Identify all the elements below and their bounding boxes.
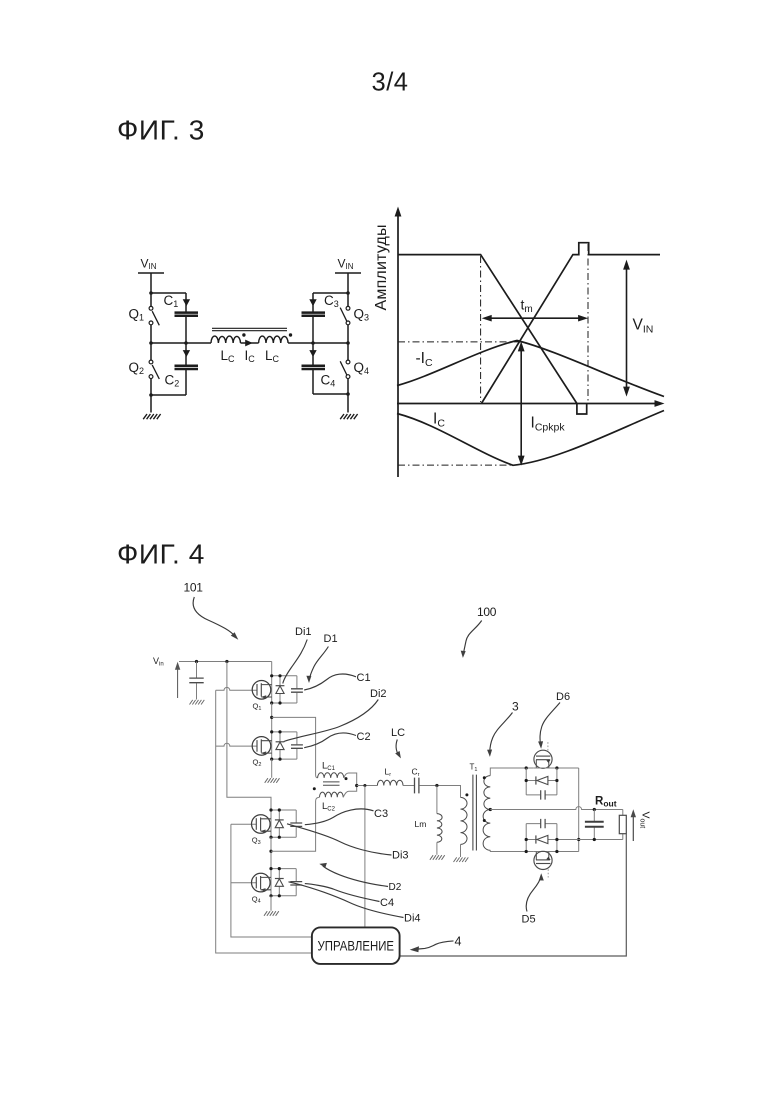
arrow current into C1	[183, 299, 190, 306]
svg-text:Vin: Vin	[153, 656, 164, 668]
label Lm	[415, 819, 427, 829]
svg-text:VIN: VIN	[633, 317, 654, 336]
wire top rectifier rail	[534, 767, 579, 769]
label LC	[391, 727, 405, 739]
label 4	[455, 935, 462, 949]
leader 100	[463, 621, 481, 655]
diode lower clamp	[526, 839, 579, 841]
node junction dots right rail	[311, 291, 350, 396]
svg-text:Q4: Q4	[354, 360, 370, 376]
wire Lc2 right lead	[343, 786, 357, 798]
gate dotted D6	[547, 742, 549, 751]
waveform top flat and falling edge with bottom notch	[398, 255, 587, 414]
label Q3	[354, 307, 370, 323]
ground primary	[454, 857, 469, 862]
label Q4	[252, 894, 261, 904]
label Cr	[412, 767, 420, 779]
arrow tm	[482, 315, 588, 322]
label D5	[522, 914, 536, 926]
leader D6	[540, 703, 560, 746]
label C2	[357, 731, 371, 743]
switch Q1	[149, 306, 159, 325]
polarity dot Lc2	[313, 787, 316, 790]
label Vin	[153, 656, 164, 668]
label Lc1	[322, 761, 336, 773]
node output bottom dot	[593, 838, 596, 841]
svg-text:Q1: Q1	[129, 307, 145, 323]
wire gate Q2 with hop	[216, 743, 257, 746]
svg-text:IC: IC	[245, 348, 256, 364]
svg-text:101: 101	[184, 581, 204, 595]
label Q1	[129, 307, 145, 323]
wire bus C gate drive lower	[231, 824, 312, 937]
label Lr	[385, 767, 392, 779]
svg-text:C3: C3	[324, 293, 339, 309]
svg-text:Cr: Cr	[412, 767, 420, 779]
leader Di4	[289, 882, 404, 918]
inductor Lm	[437, 814, 442, 843]
curve -Ic	[397, 341, 664, 397]
leader LC	[396, 740, 399, 756]
label Rout	[595, 796, 617, 809]
node dots D6	[525, 766, 559, 769]
svg-text:4: 4	[455, 935, 462, 949]
transformer T1 secondary winding upper	[484, 776, 490, 810]
transistor Q2 cell	[252, 730, 303, 760]
arrow VIN level	[623, 260, 630, 397]
node Lm tap	[435, 784, 438, 787]
wire Q3 to Q4	[270, 837, 272, 868]
polarity dot left winding	[242, 333, 245, 336]
wire Lm top	[436, 786, 438, 814]
dash-dot horizontal guide upper	[398, 341, 521, 343]
wire top rail	[179, 661, 272, 663]
arrow current into C4	[309, 350, 316, 357]
svg-text:Di1: Di1	[295, 626, 312, 638]
svg-text:100: 100	[477, 605, 497, 619]
capacitor C3	[302, 313, 326, 316]
wire C3 bottom	[312, 317, 314, 343]
switch Q2	[149, 360, 159, 379]
wire C1 branch top	[151, 293, 186, 312]
label Di4	[404, 913, 421, 925]
wire C2 branch	[151, 343, 186, 395]
switch Q4	[340, 360, 350, 378]
wire Q1 to Q2	[271, 703, 273, 732]
resistor Rout	[622, 810, 624, 840]
wire bus B Vin to lower bridge	[227, 662, 271, 811]
wire secondary bottom lead	[490, 850, 534, 851]
wire gate Q3	[231, 823, 257, 825]
label C4	[380, 897, 394, 909]
svg-text:D5: D5	[522, 914, 536, 926]
wire Lr to Cr	[403, 785, 414, 787]
arrow current into C2	[183, 350, 190, 357]
wire Q2 to ground	[271, 759, 273, 778]
inductor Lc1 winding	[318, 773, 344, 778]
svg-text:ФИГ. 4: ФИГ. 4	[117, 539, 205, 570]
svg-text:C1: C1	[164, 293, 179, 309]
svg-text:Di2: Di2	[370, 688, 387, 700]
label C3	[374, 808, 388, 820]
leader C3	[305, 809, 374, 825]
leader C4	[305, 884, 380, 902]
svg-text:C1: C1	[357, 672, 371, 684]
ground Lm	[430, 855, 445, 860]
leader D2 with arrow	[323, 866, 388, 887]
leader D5	[526, 877, 541, 912]
capacitor C2	[175, 366, 199, 369]
svg-text:Rout: Rout	[595, 796, 617, 809]
transistor Q4 cell	[252, 867, 303, 897]
svg-text:Амплитуды: Амплитуды	[373, 224, 390, 310]
wire between windings	[241, 342, 259, 344]
svg-text:УПРАВЛЕНИЕ: УПРАВЛЕНИЕ	[318, 939, 395, 954]
inductor Lr	[377, 780, 403, 785]
leader 101	[193, 597, 235, 637]
gate dotted D5	[547, 869, 549, 877]
node dots D5	[525, 850, 559, 853]
label Vout rotated	[639, 812, 652, 829]
svg-text:Q2: Q2	[129, 360, 145, 376]
label Di3	[392, 850, 409, 862]
svg-text:D6: D6	[556, 691, 570, 703]
transformer T1 secondary winding lower	[483, 810, 490, 851]
label C3	[324, 293, 339, 309]
wire output bottom rail	[579, 839, 623, 841]
wire center tap with hop over output rail	[490, 807, 623, 810]
clamp box upper: verticals	[526, 768, 557, 795]
wire C4 branch	[313, 343, 348, 394]
label Lc right	[265, 348, 280, 364]
capacitor Cr	[415, 778, 419, 794]
svg-text:VIN: VIN	[141, 257, 157, 272]
node VIN left label	[141, 257, 157, 272]
node midpoint lower bridge	[269, 850, 272, 853]
x-axis	[397, 403, 656, 405]
label Амплитуды	[373, 224, 390, 310]
core T1	[473, 775, 477, 851]
wire sense line to control	[364, 786, 366, 928]
leader Di2	[284, 700, 379, 742]
node center tap	[489, 808, 492, 811]
transistor Q1 cell	[252, 674, 303, 704]
leader C2	[304, 733, 356, 748]
svg-text:IC: IC	[433, 411, 445, 430]
svg-text:3/4: 3/4	[372, 69, 409, 97]
capacitor upper clamp	[526, 794, 557, 796]
wire secondary top lead	[490, 768, 534, 776]
ground Q2	[265, 778, 280, 783]
label -Ic	[416, 350, 433, 369]
waveform rising edge with top pulse	[481, 243, 660, 404]
arrow Ic	[245, 340, 253, 347]
label 3	[512, 700, 519, 714]
label T1	[470, 763, 478, 773]
svg-text:C4: C4	[380, 897, 394, 909]
ground input cap	[190, 700, 205, 705]
svg-text:D1: D1	[324, 633, 338, 645]
svg-text:Lr: Lr	[385, 767, 392, 779]
label 101	[184, 581, 204, 595]
svg-text:ICpkpk: ICpkpk	[531, 415, 566, 434]
node junction dots left rail	[149, 291, 153, 397]
capacitor lower clamp	[526, 823, 557, 825]
control box УПРАВЛЕНИЕ	[312, 927, 400, 964]
transformer core lines coupled inductor	[212, 328, 287, 330]
curve Ic	[397, 411, 664, 466]
wire Cr to T1	[419, 786, 460, 798]
wire Lc2 left lead	[316, 797, 320, 801]
transformer T1 primary winding	[461, 797, 468, 844]
diode upper clamp	[526, 780, 557, 782]
wire Q4 to ground	[270, 896, 272, 911]
ground left	[143, 414, 160, 419]
label Ic	[245, 348, 256, 364]
label Q1	[253, 702, 262, 712]
svg-text:Q1: Q1	[253, 702, 262, 712]
capacitor input	[196, 662, 198, 700]
wire VIN left bar	[138, 272, 164, 274]
svg-text:Q2: Q2	[253, 758, 262, 768]
svg-text:LC2: LC2	[322, 801, 336, 813]
rectifier MOSFET D5	[534, 851, 552, 869]
leader Di1	[283, 640, 307, 684]
node midpoint upper bridge	[270, 716, 273, 719]
wire midpoint tap to Lc1	[272, 717, 318, 778]
svg-text:Vout: Vout	[639, 812, 652, 829]
label 100	[477, 605, 497, 619]
label C4	[321, 373, 336, 389]
wire middle left	[151, 342, 211, 344]
svg-text:C4: C4	[321, 373, 336, 389]
clamp box lower: verticals	[526, 824, 557, 852]
label Di1	[295, 626, 312, 638]
node LC junction	[355, 784, 358, 787]
label Q3	[252, 836, 261, 846]
label C1	[164, 293, 179, 309]
svg-text:Lm: Lm	[415, 819, 427, 829]
svg-text:Q4: Q4	[252, 894, 261, 904]
ground Q4	[264, 911, 279, 916]
y-axis Амплитуды	[397, 215, 399, 477]
label ICpkpk	[531, 415, 566, 434]
label VIN	[633, 317, 654, 336]
dash-dot vertical guide left	[480, 256, 482, 402]
svg-text:C2: C2	[357, 731, 371, 743]
leader C1	[304, 674, 356, 690]
arrow Vout	[631, 809, 636, 841]
wire feedback to control	[400, 834, 627, 956]
svg-text:C2: C2	[165, 373, 180, 389]
inductor Lc left winding	[211, 336, 241, 343]
wire output plus rail vertical	[578, 768, 580, 852]
wire C1 bottom	[185, 317, 187, 343]
core lines Lc transformer	[323, 782, 340, 785]
label Q4	[354, 360, 370, 376]
inductor Lc right winding	[259, 336, 289, 343]
label Ic	[433, 411, 445, 430]
label C2	[165, 373, 180, 389]
svg-text:Q3: Q3	[252, 836, 261, 846]
wire gate Q4	[231, 882, 257, 884]
svg-text:3: 3	[512, 700, 519, 714]
leader Di3	[287, 824, 392, 855]
svg-text:D2: D2	[389, 882, 402, 893]
svg-text:LC: LC	[391, 727, 405, 739]
inductor Lc2 winding	[320, 792, 344, 797]
ground right	[340, 414, 357, 419]
leader 4 with arrow	[419, 941, 454, 949]
label Di2	[370, 688, 387, 700]
dash-dot horizontal guide lower	[398, 464, 512, 466]
label Q2	[129, 360, 145, 376]
dash-dot vertical guide right	[587, 244, 589, 402]
arrow current into C3	[309, 299, 316, 306]
wire right rail	[347, 273, 349, 413]
arrow ICpkpk	[518, 341, 525, 465]
label Q2	[253, 758, 262, 768]
switch Q3	[340, 306, 350, 324]
node sense tap	[363, 784, 366, 787]
svg-text:LC: LC	[265, 348, 280, 364]
svg-text:Di3: Di3	[392, 850, 409, 862]
polarity dot primary	[465, 793, 468, 796]
leader 3	[490, 713, 513, 754]
svg-text:Di4: Di4	[404, 913, 421, 925]
node VIN right label	[338, 257, 354, 272]
wire Lc1 right lead	[344, 773, 357, 786]
svg-text:tm: tm	[521, 297, 533, 316]
wire main line rail to Q1	[271, 662, 273, 676]
wire Lm to ground	[436, 842, 438, 855]
svg-text:VIN: VIN	[338, 257, 354, 272]
wire bottom rectifier rail	[534, 851, 579, 853]
arrow Vin polarity	[175, 662, 180, 698]
wire primary to ground	[460, 844, 462, 857]
svg-text:C3: C3	[374, 808, 388, 820]
wire midpoint tap to Lc2	[271, 801, 316, 851]
svg-text:LC1: LC1	[322, 761, 336, 773]
capacitor C1	[175, 313, 199, 316]
capacitor output	[593, 810, 595, 840]
svg-text:Q3: Q3	[354, 307, 370, 323]
rectifier MOSFET D6	[534, 750, 552, 768]
label D6	[556, 691, 570, 703]
polarity dot right winding	[289, 333, 292, 336]
node output rail dot	[577, 838, 580, 841]
wire left rail	[150, 273, 152, 413]
leader D1	[309, 647, 328, 680]
label D2	[389, 882, 402, 893]
svg-text:T1: T1	[470, 763, 478, 773]
transistor Q3 cell	[252, 808, 303, 838]
label Lc2	[322, 801, 336, 813]
polarity dot Lc1	[345, 777, 348, 780]
svg-text:-IC: -IC	[416, 350, 433, 369]
svg-text:LC: LC	[221, 348, 236, 364]
svg-text:ФИГ. 3: ФИГ. 3	[117, 115, 205, 146]
wire middle right	[288, 342, 348, 344]
node dot C1-mid	[184, 341, 188, 345]
wire gate Q1 with hop	[216, 687, 257, 690]
node dots top rail	[195, 660, 229, 663]
wire VIN right bar	[335, 272, 361, 274]
label D1	[324, 633, 338, 645]
wire LC junction to Lr	[357, 785, 378, 787]
label Lc left	[221, 348, 236, 364]
polarity dots secondary	[483, 776, 486, 822]
wire C3 branch top	[313, 293, 348, 312]
label C1	[357, 672, 371, 684]
wire bus A gate drive upper	[216, 690, 312, 953]
node output top dot	[593, 808, 596, 811]
label tm	[521, 297, 533, 316]
capacitor C4	[302, 366, 326, 369]
